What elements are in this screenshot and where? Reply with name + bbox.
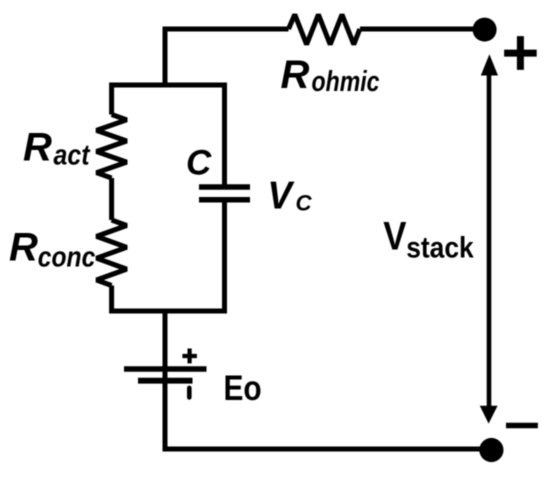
svg-text:ohmic: ohmic [312, 66, 380, 98]
wire from battery to bottom wire [163, 381, 168, 452]
wire box top edge and upper right edge [109, 85, 227, 185]
resistor R_act [97, 115, 127, 179]
svg-text:stack: stack [406, 231, 474, 264]
wire left edge middle segment [109, 178, 114, 220]
svg-text:C: C [296, 190, 313, 215]
svg-text:R: R [281, 53, 310, 97]
node terminal dot top right [473, 18, 497, 42]
wire lower left edge, bottom edge, lower right edge [109, 200, 227, 311]
battery E0 top plate [124, 366, 207, 372]
minus sign bottom terminal [506, 423, 538, 429]
svg-text:V: V [268, 175, 296, 218]
V_stack arrow shaft [487, 72, 492, 407]
plus sign top terminal [504, 36, 537, 70]
wire from box bottom to battery [163, 311, 168, 383]
svg-text:act: act [54, 140, 91, 172]
svg-text:Eo: Eo [224, 369, 262, 408]
wire top-right horizontal [360, 27, 485, 32]
svg-text:C: C [186, 143, 212, 182]
capacitor C top plate [199, 184, 250, 190]
V_stack arrowhead up [481, 54, 498, 75]
node terminal dot bottom right [479, 438, 503, 462]
battery E0 bottom plate [138, 378, 193, 384]
wire top-left horizontal [163, 27, 289, 32]
wire vertical from top wire to box [163, 27, 168, 86]
resistor R_conc [97, 220, 127, 286]
V_stack arrowhead down [480, 406, 498, 424]
svg-text:R: R [23, 126, 52, 170]
resistor R_ohmic [289, 15, 360, 45]
wire bottom horizontal [163, 447, 492, 452]
svg-text:R: R [9, 226, 38, 270]
plus sign battery [182, 349, 197, 364]
capacitor C bottom plate [199, 197, 250, 203]
minus mark battery [187, 388, 192, 398]
svg-text:conc: conc [38, 242, 96, 274]
svg-text:V: V [383, 214, 407, 258]
